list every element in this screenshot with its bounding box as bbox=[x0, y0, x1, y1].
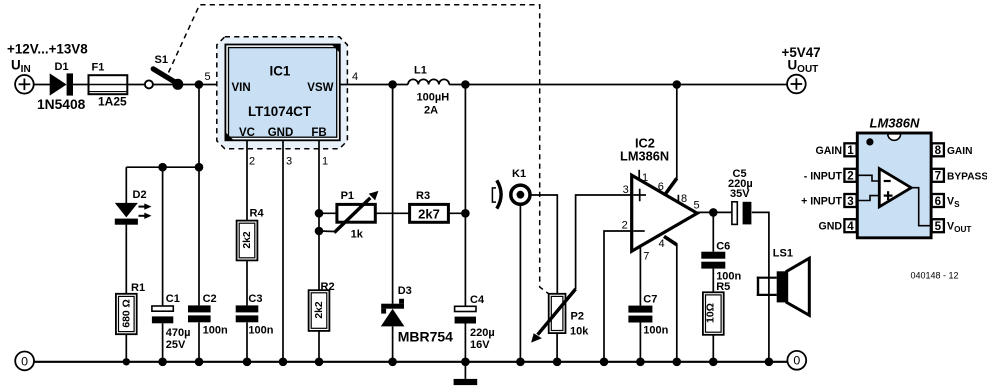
svg-text:- INPUT: - INPUT bbox=[804, 170, 843, 182]
svg-text:4: 4 bbox=[352, 71, 358, 83]
svg-text:0: 0 bbox=[793, 354, 800, 368]
svg-text:D1: D1 bbox=[55, 61, 69, 73]
DIP notch bbox=[888, 134, 901, 141]
terminal Uout bbox=[787, 75, 806, 94]
svg-text:R5: R5 bbox=[716, 281, 730, 293]
wire R2 to rail bbox=[318, 331, 320, 362]
wire VSW node to D3 bbox=[392, 85, 394, 304]
svg-text:LS1: LS1 bbox=[773, 248, 793, 260]
svg-text:25V: 25V bbox=[166, 339, 186, 351]
svg-text:1: 1 bbox=[642, 172, 648, 184]
svg-text:8: 8 bbox=[681, 193, 687, 205]
svg-text:BYPASS: BYPASS bbox=[947, 171, 987, 182]
wire L1 to Uout bbox=[449, 84, 787, 86]
terminal Uin bbox=[15, 75, 34, 94]
svg-text:C4: C4 bbox=[470, 294, 485, 306]
switch S1 bbox=[145, 54, 183, 90]
ground bbox=[454, 362, 478, 385]
svg-text:6: 6 bbox=[935, 195, 942, 208]
diode D1 bbox=[37, 61, 86, 112]
pin1 marker dot bbox=[866, 138, 873, 145]
svg-text:3: 3 bbox=[286, 156, 292, 168]
svg-text:+ INPUT: + INPUT bbox=[801, 196, 842, 208]
svg-text:VSW: VSW bbox=[307, 82, 333, 94]
svg-text:1A25: 1A25 bbox=[98, 95, 127, 109]
LED D2 bbox=[115, 189, 152, 225]
svg-text:4: 4 bbox=[659, 238, 665, 250]
capacitor C3 bbox=[236, 293, 274, 337]
svg-text:R2: R2 bbox=[321, 281, 335, 293]
svg-text:+12V...+13V8: +12V...+13V8 bbox=[7, 42, 88, 57]
pin box 2 bbox=[844, 169, 856, 182]
svg-text:680 Ω: 680 Ω bbox=[122, 299, 133, 328]
svg-text:6: 6 bbox=[658, 181, 664, 193]
svg-text:100n: 100n bbox=[248, 325, 273, 337]
pin 6 wire from +5V bbox=[676, 85, 678, 179]
svg-text:0: 0 bbox=[21, 354, 28, 368]
svg-text:C6: C6 bbox=[716, 240, 730, 252]
wire F1 to S1 bbox=[127, 84, 144, 86]
IC1 dashed box bbox=[217, 37, 348, 149]
capacitor C7 bbox=[628, 294, 668, 362]
svg-text:7: 7 bbox=[935, 170, 941, 183]
inner op-amp triangle bbox=[879, 169, 911, 207]
pin box 7 bbox=[932, 169, 944, 182]
node FB wiper bbox=[315, 227, 324, 236]
wire Uin to D1 bbox=[34, 84, 50, 86]
node Vs tap bbox=[673, 80, 682, 89]
svg-text:16V: 16V bbox=[470, 339, 490, 351]
svg-text:100n: 100n bbox=[643, 325, 668, 337]
svg-text:C3: C3 bbox=[248, 293, 262, 305]
DIP body bbox=[857, 133, 931, 238]
svg-text:100µH: 100µH bbox=[417, 92, 450, 104]
svg-text:FB: FB bbox=[311, 127, 326, 139]
pin box 4 bbox=[844, 219, 856, 232]
svg-text:2: 2 bbox=[622, 219, 628, 231]
node FB P1 top bbox=[315, 209, 324, 218]
svg-text:5: 5 bbox=[205, 71, 211, 83]
speaker LS1 bbox=[757, 248, 810, 316]
pin box 5 bbox=[932, 219, 944, 232]
svg-text:D3: D3 bbox=[398, 285, 412, 297]
op-amp IC2 bbox=[620, 136, 697, 252]
wire VSW out bbox=[340, 84, 408, 86]
pin box 8 bbox=[932, 143, 944, 156]
svg-text:1: 1 bbox=[847, 144, 854, 157]
svg-text:S1: S1 bbox=[155, 54, 168, 66]
potentiometer P2 bbox=[531, 289, 589, 362]
wire S1 to IC1 bbox=[153, 84, 226, 86]
resistor R2 bbox=[309, 281, 335, 331]
pinout diagram LM386N bbox=[801, 116, 987, 238]
svg-text:GND: GND bbox=[268, 127, 294, 139]
svg-text:100n: 100n bbox=[203, 325, 228, 337]
resistor R4 bbox=[237, 208, 265, 261]
resistor R3 bbox=[410, 190, 449, 222]
wire D1 to F1 bbox=[73, 84, 89, 86]
svg-text:10k: 10k bbox=[570, 326, 589, 338]
dashed coupling line S1 to P2 bbox=[169, 5, 549, 294]
svg-text:GAIN: GAIN bbox=[947, 146, 972, 157]
wire K1 down bbox=[519, 205, 521, 362]
node C1 tap bbox=[158, 163, 167, 172]
wire output to pin5 bbox=[911, 188, 932, 226]
inductor L1 bbox=[408, 79, 449, 84]
pin box 3 bbox=[844, 194, 856, 207]
svg-text:2: 2 bbox=[249, 156, 255, 168]
potentiometer P1 bbox=[319, 190, 378, 240]
resistor R5 bbox=[703, 281, 730, 362]
svg-text:5: 5 bbox=[694, 200, 700, 212]
diode D3 schottky bbox=[381, 285, 453, 362]
svg-text:220µ: 220µ bbox=[470, 327, 495, 339]
IC1 pin wires bbox=[246, 140, 248, 220]
wire top to C4 bbox=[464, 85, 466, 307]
wire P2 wiper to pin3 bbox=[576, 195, 632, 289]
node output bbox=[709, 208, 718, 217]
node L1 right bbox=[461, 80, 470, 89]
bottom rail bbox=[34, 361, 788, 363]
svg-text:VIN: VIN bbox=[232, 82, 251, 94]
wire output bbox=[696, 211, 732, 213]
node on S1 line bbox=[195, 163, 204, 172]
svg-text:C7: C7 bbox=[643, 294, 657, 306]
wire vertical from S1 node through C2 to rail bbox=[198, 85, 200, 306]
svg-text:1k: 1k bbox=[351, 228, 364, 240]
pin 1 stub bbox=[638, 170, 640, 181]
svg-text:35V: 35V bbox=[730, 188, 750, 200]
wire pin2 to inverting input bbox=[857, 175, 880, 181]
svg-text:F1: F1 bbox=[92, 62, 105, 74]
jack K1 bbox=[511, 168, 530, 204]
svg-text:P1: P1 bbox=[341, 190, 354, 202]
wire P1 to R3 bbox=[375, 212, 409, 214]
svg-text:C1: C1 bbox=[166, 293, 180, 305]
svg-text:7: 7 bbox=[643, 251, 649, 263]
svg-text:2A: 2A bbox=[424, 105, 438, 117]
svg-text:VC: VC bbox=[239, 127, 255, 139]
svg-text:5: 5 bbox=[935, 220, 942, 233]
svg-text:R4: R4 bbox=[250, 208, 265, 220]
svg-text:LT1074CT: LT1074CT bbox=[248, 104, 312, 119]
jack K1 plug symbol bbox=[492, 180, 501, 208]
svg-text:P2: P2 bbox=[571, 311, 584, 323]
wire C5 to LS1 bbox=[752, 212, 769, 361]
wire horizontal y167 bbox=[126, 166, 199, 168]
capacitor C1 electrolytic bbox=[152, 167, 191, 362]
svg-text:L1: L1 bbox=[414, 65, 427, 77]
svg-text:C2: C2 bbox=[203, 293, 217, 305]
svg-text:R1: R1 bbox=[131, 282, 145, 294]
svg-text:GAIN: GAIN bbox=[816, 145, 842, 157]
svg-text:4: 4 bbox=[847, 220, 854, 233]
svg-text:2: 2 bbox=[847, 170, 853, 183]
pin box 1 bbox=[844, 143, 856, 156]
svg-text:LM386N: LM386N bbox=[870, 116, 920, 131]
rail junction nodes bbox=[123, 358, 774, 367]
pin 4 wire to rail bbox=[664, 236, 677, 244]
svg-text:IC1: IC1 bbox=[270, 64, 291, 79]
svg-text:K1: K1 bbox=[512, 168, 526, 180]
wire K1 to P2 top bbox=[531, 195, 558, 294]
node R3 right bbox=[461, 209, 470, 218]
capacitor C2 bbox=[188, 293, 228, 337]
capacitor C4 electrolytic bbox=[455, 294, 495, 362]
capacitor C5 electrolytic bbox=[728, 168, 753, 224]
svg-text:10Ω: 10Ω bbox=[706, 303, 717, 323]
svg-text:1: 1 bbox=[322, 156, 328, 168]
svg-text:LM386N: LM386N bbox=[620, 149, 669, 164]
op regulator IC1 body bbox=[225, 45, 339, 141]
svg-text:1N5408: 1N5408 bbox=[37, 97, 86, 112]
svg-text:2k2: 2k2 bbox=[314, 301, 325, 319]
terminal 0 right bbox=[787, 351, 806, 370]
pin box 6 bbox=[932, 194, 944, 207]
svg-text:3: 3 bbox=[847, 195, 854, 208]
node after S1 bbox=[195, 80, 204, 89]
svg-text:3: 3 bbox=[623, 184, 629, 196]
wire pin3 to noninverting input bbox=[857, 196, 880, 201]
terminal 0 left bbox=[15, 352, 34, 371]
svg-text:R3: R3 bbox=[416, 190, 430, 202]
capacitor C6 bbox=[701, 240, 741, 292]
svg-text:8: 8 bbox=[935, 144, 942, 157]
wire D2 branch bbox=[125, 167, 127, 203]
svg-text:470µ: 470µ bbox=[166, 327, 191, 339]
node L1 left bbox=[388, 80, 397, 89]
svg-text:040148 - 12: 040148 - 12 bbox=[911, 271, 959, 281]
svg-text:GND: GND bbox=[818, 221, 842, 233]
wire C6 branch bbox=[712, 212, 714, 251]
fuse F1 bbox=[89, 62, 128, 109]
svg-text:D2: D2 bbox=[133, 189, 147, 201]
pin 8 stub bbox=[677, 195, 679, 203]
resistor R1 bbox=[116, 282, 145, 334]
svg-text:MBR754: MBR754 bbox=[398, 328, 453, 344]
wire R3 to C4 line bbox=[448, 212, 465, 214]
wire pin2 to rail bbox=[604, 231, 632, 362]
svg-text:2k7: 2k7 bbox=[418, 207, 440, 222]
wire VC to C3 bbox=[246, 260, 248, 305]
pin 7 stub to C7 bbox=[639, 247, 641, 306]
svg-text:2k2: 2k2 bbox=[242, 231, 253, 249]
